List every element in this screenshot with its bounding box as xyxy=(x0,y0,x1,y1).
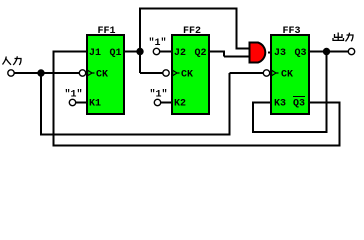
svg-text:FF2: FF2 xyxy=(183,26,201,37)
svg-text:CK: CK xyxy=(281,70,293,81)
svg-text:J2: J2 xyxy=(174,48,186,59)
svg-text:"1": "1" xyxy=(149,37,167,49)
svg-text:J1: J1 xyxy=(89,48,101,59)
svg-text:K3: K3 xyxy=(274,99,286,110)
svg-text:FF1: FF1 xyxy=(98,26,116,37)
svg-text:"1": "1" xyxy=(150,89,168,101)
svg-text:Q1: Q1 xyxy=(110,48,122,59)
svg-text:K2: K2 xyxy=(174,99,186,110)
svg-text:Q3: Q3 xyxy=(293,99,305,110)
svg-text:FF3: FF3 xyxy=(283,26,301,37)
svg-text:Q2: Q2 xyxy=(195,48,207,59)
svg-text:"1": "1" xyxy=(65,89,83,101)
svg-text:Q3: Q3 xyxy=(295,48,307,59)
svg-text:CK: CK xyxy=(96,70,108,81)
svg-text:J3: J3 xyxy=(274,48,286,59)
svg-text:K1: K1 xyxy=(89,99,101,110)
svg-text:CK: CK xyxy=(181,70,193,81)
